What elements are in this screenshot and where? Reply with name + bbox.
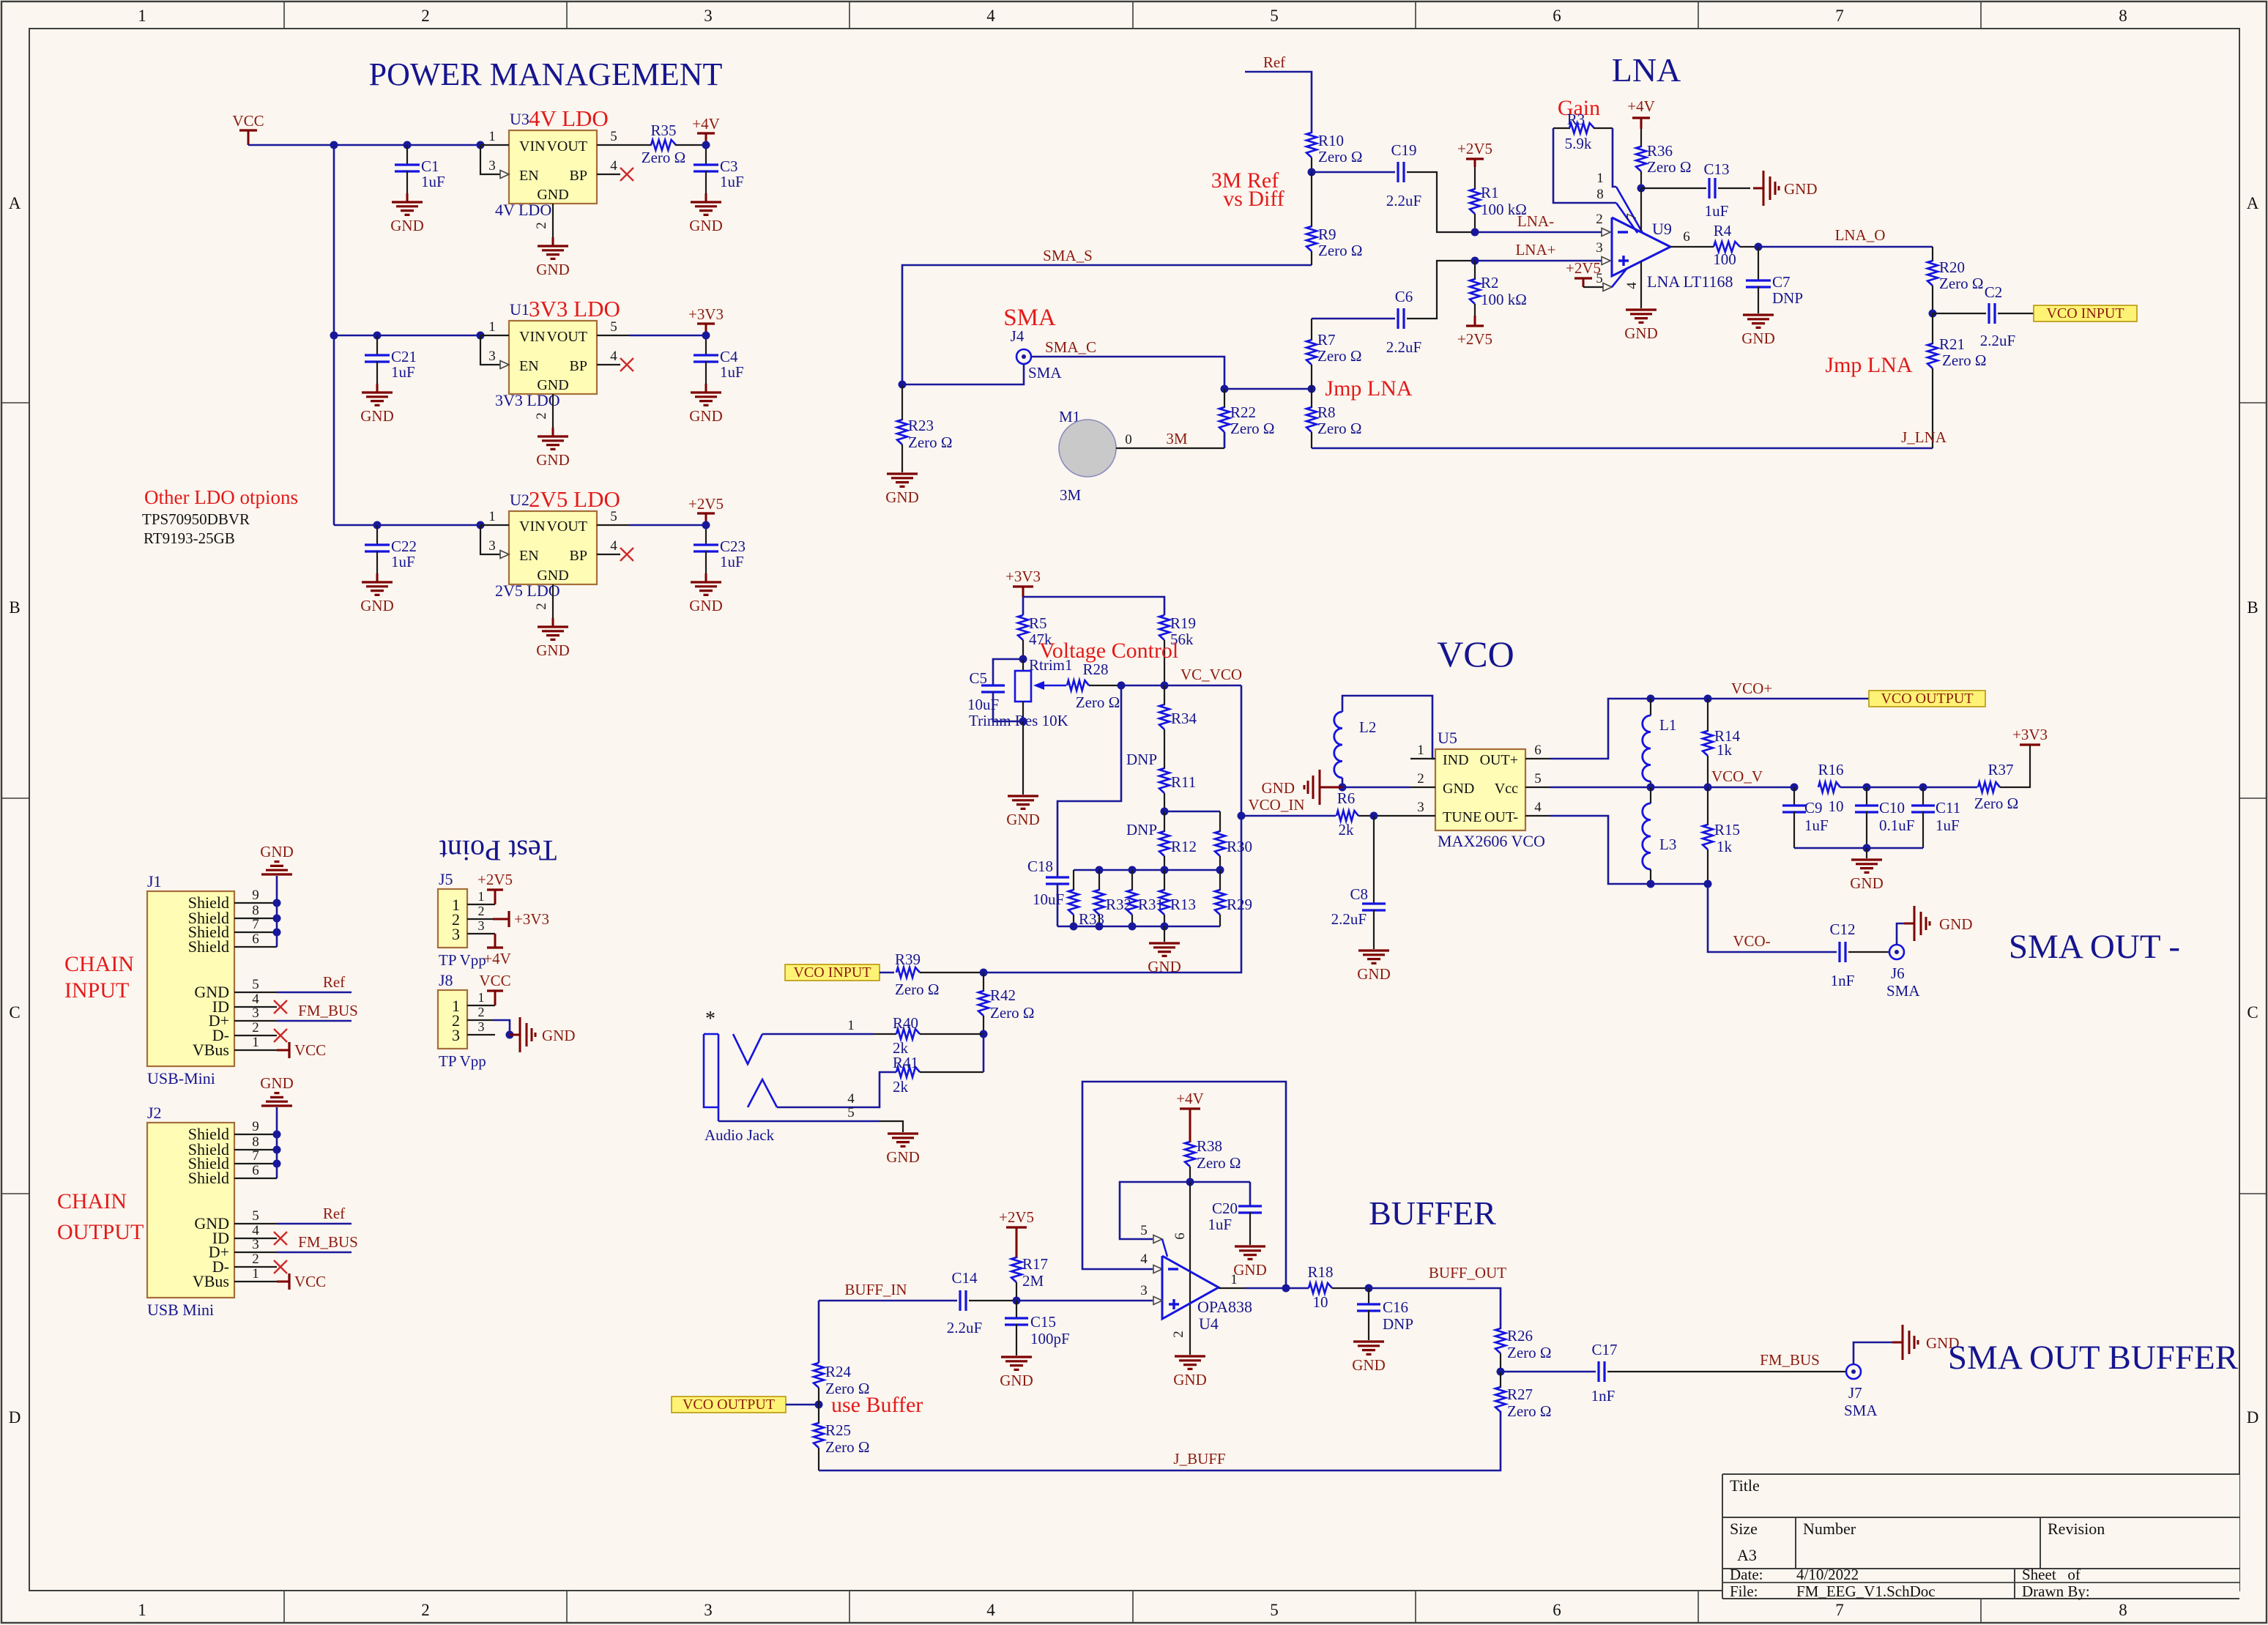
wire SMA_C (1031, 357, 1224, 389)
resistor R2 (1474, 261, 1476, 280)
resistor R18 (1309, 1283, 1332, 1293)
junction (330, 332, 338, 340)
svg-text:3: 3 (452, 925, 460, 943)
ground below output cap (691, 201, 721, 203)
svg-text:R2: R2 (1481, 274, 1499, 291)
pin 3 J2 (234, 1252, 277, 1253)
wire LNA- (1475, 231, 1602, 234)
wire BUFF_OUT (1369, 1288, 1501, 1329)
wire J6 to chassis ground (1897, 923, 1908, 945)
svg-text:6: 6 (1683, 229, 1690, 245)
svg-text:2: 2 (478, 904, 485, 918)
svg-text:R1: R1 (1481, 184, 1499, 201)
junction (1370, 812, 1378, 820)
wire Ref from J1 (277, 992, 352, 994)
svg-text:EN: EN (519, 358, 539, 374)
svg-text:3V3 LDO: 3V3 LDO (495, 391, 560, 409)
ground below C10 (1866, 848, 1867, 858)
ground below output cap (691, 581, 721, 583)
svg-text:1: 1 (252, 1035, 259, 1050)
junction (273, 915, 281, 923)
svg-text:2M: 2M (1022, 1272, 1044, 1290)
svg-text:R19: R19 (1170, 614, 1196, 632)
svg-text:SMA OUT BUFFER: SMA OUT BUFFER (1948, 1339, 2239, 1377)
svg-text:GND: GND (536, 642, 570, 659)
svg-text:2.2uF: 2.2uF (1386, 192, 1421, 209)
svg-text:3M: 3M (1060, 486, 1082, 504)
capacitor C17 (1501, 1371, 1596, 1373)
pin 3 J1 (234, 1020, 277, 1022)
resistor R1 (1474, 167, 1476, 190)
svg-text:J_LNA: J_LNA (1901, 428, 1947, 446)
svg-text:LNA+: LNA+ (1515, 241, 1555, 259)
wire to C19 (1312, 171, 1395, 174)
svg-text:2: 2 (1171, 1331, 1186, 1338)
capacitor C2 (1933, 313, 1986, 314)
pin 1 U4 output (1219, 1287, 1245, 1289)
op-amp U9 (1612, 217, 1670, 276)
svg-text:R39: R39 (895, 951, 921, 968)
wire VCC row2 (334, 335, 480, 337)
junction (1365, 1284, 1373, 1293)
pin 4 audio jack (777, 1072, 896, 1107)
svg-text:GND: GND (689, 217, 723, 234)
svg-text:TP Vpp: TP Vpp (439, 1052, 486, 1070)
svg-text:R5: R5 (1029, 614, 1047, 632)
svg-text:2: 2 (534, 412, 549, 420)
svg-text:1uF: 1uF (720, 553, 744, 570)
resistor R38 (1185, 1142, 1195, 1167)
svg-text:L3: L3 (1659, 836, 1676, 853)
svg-text:+3V3: +3V3 (514, 910, 549, 928)
junction (1282, 1284, 1290, 1293)
svg-text:Zero Ω: Zero Ω (1318, 242, 1363, 259)
resistor R10 (1306, 133, 1317, 157)
junction (1238, 812, 1246, 820)
ground below C7 (1743, 313, 1774, 316)
pin 6 J1 (234, 946, 277, 948)
pin 6 J2 (234, 1178, 277, 1179)
svg-text:Title: Title (1730, 1476, 1760, 1495)
svg-text:Zero Ω: Zero Ω (1317, 347, 1362, 365)
svg-text:GND: GND (1173, 1371, 1207, 1388)
no-connect ID J1 (274, 1000, 287, 1014)
capacitor C10 (1866, 787, 1867, 806)
svg-text:L1: L1 (1659, 716, 1676, 734)
svg-text:VBus: VBus (193, 1272, 229, 1290)
svg-text:VCO OUTPUT: VCO OUTPUT (1881, 691, 1973, 707)
svg-text:Zero Ω: Zero Ω (642, 149, 686, 166)
svg-text:Zero Ω: Zero Ω (1647, 158, 1692, 176)
svg-text:Other LDO otpions: Other LDO otpions (144, 486, 298, 508)
svg-text:GND: GND (360, 597, 394, 614)
svg-text:+2V5: +2V5 (1457, 140, 1492, 157)
svg-text:TUNE: TUNE (1443, 809, 1481, 825)
junction (980, 1030, 988, 1038)
svg-text:1uF: 1uF (720, 363, 744, 381)
VCO chip U5 MAX2606 (1435, 749, 1525, 830)
svg-text:C9: C9 (1804, 799, 1823, 817)
svg-text:1uF: 1uF (391, 363, 415, 381)
resistor R40 (896, 1029, 920, 1039)
svg-text:C12: C12 (1829, 921, 1855, 938)
svg-text:2: 2 (1417, 771, 1424, 787)
svg-text:4: 4 (847, 1091, 855, 1107)
pin 5 J2 (234, 1223, 277, 1224)
pin 5 J1 (234, 992, 277, 993)
pin 1 audio jack (762, 1033, 873, 1035)
regulator U1 box (509, 321, 597, 394)
svg-text:+4V: +4V (1627, 97, 1655, 115)
svg-text:D: D (9, 1408, 21, 1427)
svg-text:+2V5: +2V5 (688, 495, 724, 513)
junction (477, 332, 485, 340)
svg-text:1: 1 (488, 319, 496, 335)
svg-text:C14: C14 (951, 1269, 978, 1287)
svg-text:R41: R41 (893, 1054, 918, 1071)
svg-text:VOUT: VOUT (546, 138, 587, 155)
svg-text:DNP: DNP (1126, 821, 1157, 838)
svg-text:5: 5 (1534, 771, 1542, 787)
junction (506, 1031, 514, 1039)
resistor R20 (1927, 261, 1938, 286)
svg-text:3: 3 (252, 1237, 259, 1252)
svg-text:R40: R40 (893, 1014, 918, 1032)
svg-text:C17: C17 (1591, 1341, 1617, 1358)
resistor R34 (1164, 685, 1165, 705)
pin 4 J1 (234, 1006, 277, 1008)
junction (1308, 385, 1316, 393)
capacitor C14 (959, 1290, 961, 1311)
svg-text:SMA OUT -: SMA OUT - (2009, 928, 2180, 966)
resistor R33 (1073, 870, 1074, 890)
junction (1129, 866, 1137, 874)
svg-text:5: 5 (1596, 271, 1603, 286)
svg-text:Ref: Ref (323, 1205, 345, 1222)
junction (1497, 1368, 1505, 1376)
svg-text:J_BUFF: J_BUFF (1173, 1450, 1225, 1468)
svg-text:R9: R9 (1318, 226, 1336, 243)
svg-text:U5: U5 (1438, 729, 1457, 747)
svg-text:Rtrim1: Rtrim1 (1029, 656, 1073, 674)
svg-text:GND: GND (1784, 180, 1818, 198)
resistor R14 (1707, 699, 1709, 732)
resistor R26 (1495, 1328, 1506, 1353)
resistor R15 (1707, 787, 1709, 825)
svg-text:File:: File: (1730, 1583, 1758, 1600)
pin 9 J2 (234, 1134, 277, 1135)
svg-text:R37: R37 (1988, 761, 2013, 778)
svg-text:GND: GND (1850, 874, 1884, 892)
pin 5 VOUT U1 (597, 335, 630, 336)
svg-text:GND: GND (1443, 781, 1474, 797)
audio jack tip contact (733, 1034, 762, 1064)
wire Ref from J2 (277, 1223, 352, 1225)
svg-text:BUFF_OUT: BUFF_OUT (1429, 1264, 1506, 1282)
svg-text:1: 1 (1596, 171, 1604, 186)
wire VOUT row2 (630, 335, 706, 337)
svg-text:1k: 1k (1717, 838, 1733, 855)
svg-text:Zero Ω: Zero Ω (1076, 693, 1120, 711)
resistor R8 (1311, 389, 1312, 408)
svg-text:VCO INPUT: VCO INPUT (793, 964, 871, 981)
connector J1 USB-Mini box (147, 891, 234, 1066)
wire +3V3 rail (1023, 597, 1164, 615)
svg-text:R24: R24 (825, 1363, 852, 1380)
junction (1863, 844, 1871, 852)
pin 5 VOUT U3 (597, 144, 630, 146)
svg-text:2V5 LDO: 2V5 LDO (529, 486, 620, 512)
svg-text:4: 4 (1624, 282, 1640, 289)
junction (899, 381, 907, 389)
svg-text:+2V5: +2V5 (1457, 330, 1492, 348)
resistor R32 (1098, 870, 1100, 890)
svg-text:R34: R34 (1171, 710, 1197, 727)
wire C6 left to R7 column (1312, 318, 1395, 320)
svg-text:3: 3 (1140, 1283, 1148, 1298)
junction (1471, 257, 1479, 265)
svg-text:U1: U1 (510, 300, 529, 319)
wire J8 pin2 to pin3 (493, 1020, 510, 1035)
svg-text:EN: EN (519, 548, 539, 564)
connector J5 header box (438, 889, 467, 948)
svg-text:Audio Jack: Audio Jack (704, 1126, 775, 1144)
wire VCO_V rail (1550, 787, 1794, 789)
inductor L2 (1342, 696, 1435, 759)
no-connect D- J2 (274, 1260, 287, 1273)
svg-text:GND: GND (1006, 811, 1040, 828)
wire VCO- drop (1708, 884, 1837, 952)
junction (373, 521, 382, 529)
svg-text:GND: GND (1624, 324, 1658, 342)
svg-text:1: 1 (478, 990, 485, 1005)
svg-text:VCO OUTPUT: VCO OUTPUT (683, 1397, 775, 1413)
svg-text:C18: C18 (1027, 858, 1053, 875)
svg-text:Number: Number (1803, 1520, 1856, 1538)
wire LNA+ (1475, 260, 1602, 262)
svg-text:10uF: 10uF (1033, 890, 1064, 908)
svg-text:J5: J5 (439, 870, 453, 888)
wire R16 to C10 (1840, 787, 1923, 789)
power port +4V at J5 pin3 (494, 934, 497, 948)
svg-text:R13: R13 (1170, 896, 1196, 913)
svg-text:BUFF_IN: BUFF_IN (844, 1281, 907, 1298)
svg-text:6: 6 (1534, 743, 1542, 758)
junction (1919, 784, 1927, 792)
svg-text:R16: R16 (1818, 761, 1843, 778)
svg-text:1uF: 1uF (1936, 817, 1960, 834)
wire to R39 (880, 972, 894, 974)
svg-text:R28: R28 (1082, 661, 1108, 678)
svg-text:GND: GND (886, 1148, 920, 1166)
svg-text:4V LDO: 4V LDO (495, 201, 551, 219)
wire SMA_S (902, 265, 1312, 384)
svg-text:2: 2 (252, 1020, 259, 1035)
svg-text:VCO-: VCO- (1733, 932, 1770, 950)
svg-text:FM_EEG_V1.SchDoc: FM_EEG_V1.SchDoc (1796, 1583, 1936, 1600)
wire use Buffer node (786, 1404, 819, 1406)
svg-text:R15: R15 (1714, 821, 1740, 838)
svg-text:10uF: 10uF (967, 696, 999, 713)
svg-text:GND: GND (1352, 1356, 1386, 1374)
svg-text:Zero Ω: Zero Ω (990, 1004, 1035, 1022)
svg-text:+4V: +4V (1176, 1090, 1204, 1107)
svg-text:GND: GND (1262, 779, 1295, 797)
pin 2 J5 (467, 918, 493, 920)
junction (980, 969, 988, 977)
svg-text:Sheet of: Sheet of (2022, 1566, 2081, 1583)
junction (273, 1131, 281, 1139)
regulator U3 box (509, 130, 597, 204)
pin 5 U5 (1525, 787, 1550, 788)
svg-text:4: 4 (610, 538, 617, 554)
connector J2 USB-Mini box (147, 1123, 234, 1298)
junction (1216, 866, 1224, 874)
power port +3V3 at J5 pin2 (493, 918, 509, 921)
svg-text:GND: GND (689, 407, 723, 425)
svg-text:4: 4 (1140, 1252, 1148, 1267)
junction (1471, 228, 1479, 237)
capacitor output side (705, 525, 707, 545)
pin 1 J5 (467, 904, 495, 905)
svg-text:C2: C2 (1985, 283, 2003, 301)
resistor R23 (901, 384, 903, 420)
svg-text:2k: 2k (1339, 821, 1355, 838)
svg-text:J7: J7 (1848, 1384, 1862, 1402)
svg-text:2V5 LDO: 2V5 LDO (495, 581, 560, 600)
svg-text:8: 8 (2119, 1601, 2127, 1619)
resistor R17 (1011, 1257, 1022, 1282)
wire VCC row3 (334, 524, 480, 527)
resistor R25 (818, 1405, 819, 1424)
svg-text:FM_BUS: FM_BUS (298, 1233, 358, 1251)
title block (1723, 1475, 2239, 1598)
svg-text:5: 5 (610, 129, 617, 144)
ground below U9 (1626, 308, 1657, 311)
capacitor output side (705, 335, 707, 355)
pin 1 J1 (234, 1049, 277, 1051)
svg-text:B: B (9, 598, 20, 617)
connector J7 SMA (1846, 1364, 1861, 1379)
svg-text:3: 3 (478, 918, 485, 933)
resistor R4 (1701, 246, 1714, 248)
junction (1129, 923, 1137, 931)
no-connect D- J1 (274, 1029, 287, 1042)
svg-text:VCO_IN: VCO_IN (1249, 796, 1305, 814)
svg-text:Jmp LNA: Jmp LNA (1325, 376, 1413, 401)
svg-text:SMA: SMA (1886, 982, 1920, 1000)
wire VC_VCO (1121, 685, 1241, 687)
junction (1221, 385, 1229, 393)
svg-text:R23: R23 (908, 417, 934, 434)
resistor R31 (1131, 870, 1133, 890)
svg-text:2.2uF: 2.2uF (1331, 910, 1367, 928)
junction (1704, 784, 1712, 792)
junction (1791, 784, 1799, 792)
svg-text:C5: C5 (969, 669, 987, 687)
svg-text:C13: C13 (1703, 160, 1729, 178)
pin 2 U5 (1410, 787, 1435, 788)
svg-text:Zero Ω: Zero Ω (825, 1380, 870, 1397)
svg-text:2: 2 (1596, 212, 1603, 227)
junction (1647, 784, 1655, 792)
svg-text:INPUT: INPUT (64, 978, 129, 1003)
junction (1637, 185, 1646, 193)
svg-text:DNP: DNP (1383, 1315, 1413, 1333)
svg-text:GND: GND (360, 407, 394, 425)
svg-text:Zero Ω: Zero Ω (825, 1438, 870, 1456)
pin 6 and pin 2 vertical U4 (1189, 1182, 1191, 1355)
pin 8 J2 (234, 1149, 277, 1150)
pin 3 EN U2 (480, 525, 501, 554)
pin 5 VOUT U2 (597, 524, 630, 526)
svg-text:GND: GND (1939, 915, 1973, 933)
svg-text:VOUT: VOUT (546, 518, 587, 535)
power port VCC at J1 VBus (277, 1049, 289, 1052)
svg-text:1: 1 (1230, 1272, 1238, 1287)
svg-text:*: * (705, 1008, 715, 1030)
svg-text:C: C (2247, 1003, 2258, 1022)
feedback loop wire (1082, 1082, 1286, 1288)
svg-text:GND: GND (542, 1027, 576, 1044)
capacitor C13 (1641, 187, 1706, 189)
svg-text:4: 4 (610, 349, 617, 364)
svg-text:U4: U4 (1199, 1314, 1219, 1333)
svg-text:6: 6 (1553, 7, 1561, 25)
pin 6 U5 (1525, 758, 1550, 759)
svg-text:3: 3 (704, 7, 713, 25)
svg-text:SMA: SMA (1844, 1402, 1878, 1419)
pin 3 arrow U4 (1153, 1297, 1162, 1305)
svg-text:4: 4 (1534, 800, 1542, 815)
pin 7 U9 (1640, 188, 1642, 233)
svg-text:VOUT: VOUT (546, 329, 587, 345)
svg-text:VC_VCO: VC_VCO (1181, 666, 1242, 683)
svg-text:100: 100 (1713, 250, 1736, 268)
svg-text:R20: R20 (1939, 259, 1965, 276)
svg-text:A3: A3 (1737, 1546, 1757, 1564)
junction (1186, 1178, 1194, 1186)
svg-text:VCO INPUT: VCO INPUT (2046, 305, 2124, 321)
svg-text:VCC: VCC (232, 112, 264, 130)
svg-text:1: 1 (478, 889, 485, 904)
junction (1161, 866, 1169, 874)
pin 5 audio jack (718, 1120, 879, 1123)
svg-text:EN: EN (519, 168, 539, 184)
junction (1755, 243, 1763, 251)
svg-text:R11: R11 (1171, 773, 1196, 791)
svg-text:2: 2 (252, 1252, 259, 1267)
pin 7 J1 (234, 932, 277, 933)
svg-text:1uF: 1uF (391, 553, 415, 570)
resistor R24 (814, 1363, 824, 1388)
power port +2V5 at J5 pin1 (494, 890, 497, 904)
svg-text:4: 4 (986, 1601, 995, 1619)
svg-text:A: A (2247, 194, 2259, 212)
wire to pin 3 (1016, 1300, 1153, 1302)
capacitor input U3 side (406, 145, 408, 165)
svg-text:7: 7 (252, 917, 259, 932)
junction (1704, 880, 1712, 888)
svg-text:C10: C10 (1879, 799, 1905, 817)
svg-text:VIN: VIN (519, 329, 546, 345)
svg-text:4: 4 (252, 1223, 259, 1238)
svg-text:1: 1 (488, 129, 496, 144)
junction (1161, 923, 1169, 931)
svg-text:3V3 LDO: 3V3 LDO (529, 296, 620, 321)
pin 3 U5 (1410, 815, 1435, 817)
svg-text:BUFFER: BUFFER (1369, 1194, 1496, 1232)
